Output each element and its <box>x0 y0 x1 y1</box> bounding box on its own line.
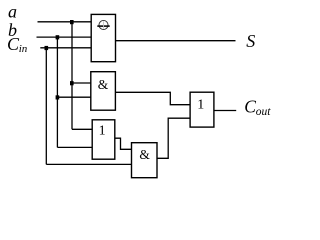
and gate U2 box <box>91 72 116 111</box>
wire input b <box>37 36 92 38</box>
wire OR1 input 2 <box>57 146 92 148</box>
svg-text:C: C <box>244 97 256 117</box>
junction dot AND1 in2 <box>56 95 60 99</box>
xor gate U1 box <box>91 14 115 61</box>
svg-text:&: & <box>139 147 150 162</box>
wire output S <box>116 40 236 42</box>
svg-text:a: a <box>8 2 17 22</box>
and gate U4 box <box>132 143 158 178</box>
wire AND2 input 2 <box>46 163 131 165</box>
or gate U3 box <box>92 120 115 159</box>
wire branch b vertical <box>56 37 58 147</box>
wire OR1 output to AND2 input 1 <box>115 138 132 149</box>
wire input a <box>38 21 92 23</box>
svg-text:&: & <box>98 77 109 92</box>
svg-text:in: in <box>19 43 28 55</box>
junction dot a <box>70 20 74 24</box>
wire AND1 output to OR2 input 1 <box>115 92 190 104</box>
wire OR1 input 1 <box>72 128 92 130</box>
wire AND2 output to OR2 input 2 <box>157 118 190 158</box>
wire AND1 input 1 <box>72 82 91 84</box>
svg-text:S: S <box>246 31 255 51</box>
svg-text:1: 1 <box>99 124 106 139</box>
junction dot AND1 in1 <box>70 81 74 85</box>
wire branch Cin vertical <box>45 48 47 165</box>
wire input Cin <box>40 47 91 49</box>
junction dot b <box>56 35 60 39</box>
svg-text:out: out <box>256 106 271 118</box>
wire output Cout <box>214 110 236 112</box>
svg-text:1: 1 <box>197 98 204 113</box>
or gate U5 box <box>190 92 214 127</box>
wire AND1 input 2 <box>57 96 90 98</box>
junction dot Cin <box>45 46 49 50</box>
wire branch a vertical <box>71 22 73 130</box>
xor symbol circled-plus in U1 <box>97 20 109 29</box>
